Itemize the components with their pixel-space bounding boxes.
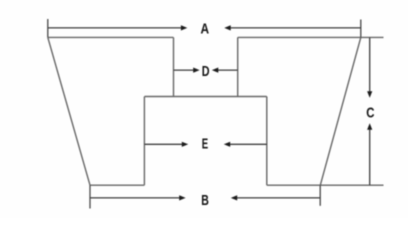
outline: neck left vertical bbox=[173, 37, 175, 96]
dim A: left line bbox=[48, 27, 182, 29]
outline: bottom edge left segment bbox=[90, 184, 144, 186]
dim A: right line bbox=[230, 27, 361, 29]
outline: left slope bbox=[48, 37, 90, 185]
outline: cavity right vertical bbox=[266, 97, 268, 186]
dim C: down arrowhead bbox=[367, 91, 372, 97]
dim A: left arrowhead bbox=[181, 25, 187, 30]
dim E: right arrowhead bbox=[224, 142, 230, 147]
dim B: right extension tick bbox=[319, 185, 321, 206]
svg-text:C: C bbox=[366, 104, 374, 121]
outline: bottom edge right segment with extension bbox=[267, 184, 384, 186]
outline: mid horizontal shelf bbox=[144, 96, 266, 98]
dim B: right arrowhead bbox=[231, 195, 237, 200]
svg-text:D: D bbox=[202, 63, 210, 80]
outline: cavity left vertical bbox=[143, 97, 145, 186]
dim D: left line bbox=[174, 69, 195, 71]
svg-text:E: E bbox=[202, 136, 208, 153]
outline: neck right vertical bbox=[237, 37, 239, 96]
dim A: right arrowhead bbox=[224, 25, 230, 30]
dim B: left arrowhead bbox=[179, 195, 185, 200]
svg-text:B: B bbox=[201, 192, 209, 209]
outline: top edge right segment with extension bbox=[238, 36, 384, 38]
dim C: upper vertical line bbox=[369, 37, 371, 92]
dim A: right extension tick bbox=[360, 20, 362, 38]
outline: right slope bbox=[320, 37, 361, 185]
dim D: right arrowhead bbox=[212, 68, 218, 73]
outline: top edge left segment bbox=[48, 36, 174, 38]
dim B: left extension tick bbox=[89, 185, 91, 208]
dim C: up arrowhead bbox=[367, 123, 372, 129]
dim B: right line bbox=[236, 197, 320, 199]
dim D: right line bbox=[217, 69, 237, 71]
dim E: left arrowhead bbox=[182, 142, 188, 147]
dim C: lower vertical line bbox=[369, 129, 371, 185]
svg-text:A: A bbox=[201, 20, 210, 37]
dim A: left extension tick bbox=[47, 19, 49, 37]
dim E: right line bbox=[229, 143, 266, 145]
dim E: left line bbox=[144, 143, 182, 145]
dim D: left arrowhead bbox=[193, 68, 199, 73]
dim B: left line bbox=[90, 197, 180, 199]
